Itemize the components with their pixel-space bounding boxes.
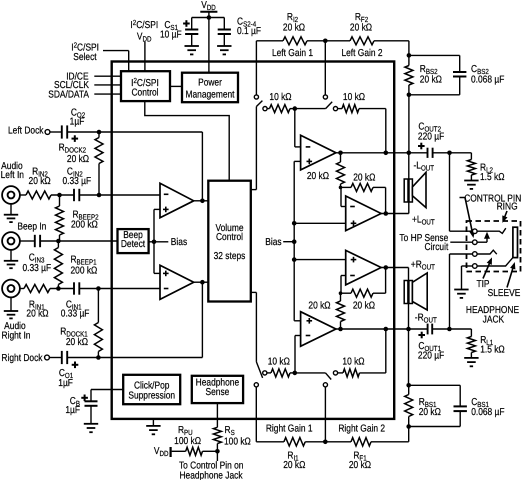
svg-text:20 kΩ: 20 kΩ (67, 154, 90, 165)
svg-text:JACK: JACK (483, 315, 505, 326)
svg-text:SLEEVE: SLEEVE (488, 288, 521, 299)
svg-text:20 kΩ: 20 kΩ (420, 75, 443, 86)
svg-text:Left Gain 2: Left Gain 2 (341, 48, 382, 59)
svg-text:10 kΩ: 10 kΩ (269, 92, 292, 103)
svg-text:20 kΩ: 20 kΩ (283, 23, 306, 34)
svg-text:1µF: 1µF (65, 405, 80, 416)
svg-text:20 kΩ: 20 kΩ (308, 301, 331, 312)
svg-text:0.1 µF: 0.1 µF (237, 26, 261, 37)
svg-text:Control: Control (131, 88, 158, 99)
svg-text:100 kΩ: 100 kΩ (174, 436, 201, 447)
svg-text:20 kΩ: 20 kΩ (349, 460, 372, 471)
svg-text:Bias: Bias (265, 237, 281, 248)
svg-text:200 kΩ: 200 kΩ (71, 220, 98, 231)
svg-text:0.068 µF: 0.068 µF (471, 75, 504, 86)
svg-text:32 steps: 32 steps (214, 251, 246, 262)
svg-text:I2C/SPI: I2C/SPI (130, 18, 158, 31)
svg-text:Left Dock: Left Dock (8, 126, 44, 137)
svg-text:RS: RS (225, 425, 235, 437)
svg-text:20 kΩ: 20 kΩ (29, 176, 52, 187)
svg-text:+ROUT: +ROUT (411, 259, 435, 271)
svg-text:Power: Power (198, 78, 222, 89)
svg-text:100 kΩ: 100 kΩ (224, 437, 251, 448)
svg-text:20 kΩ: 20 kΩ (66, 337, 89, 348)
svg-text:1.5 kΩ: 1.5 kΩ (480, 172, 505, 183)
svg-text:200 kΩ: 200 kΩ (70, 265, 97, 276)
svg-text:Detect: Detect (121, 239, 145, 250)
svg-text:+LOUT: +LOUT (412, 215, 435, 227)
svg-text:Left In: Left In (1, 170, 24, 181)
svg-text:-ROUT: -ROUT (415, 312, 437, 324)
svg-text:1µF: 1µF (58, 378, 73, 389)
svg-text:220 µF: 220 µF (418, 351, 444, 362)
svg-text:10 µF: 10 µF (160, 29, 182, 40)
svg-text:Right In: Right In (2, 331, 31, 342)
svg-text:0.33 µF: 0.33 µF (22, 263, 51, 274)
svg-text:Right Gain 2: Right Gain 2 (338, 424, 385, 435)
svg-text:Headphone Jack: Headphone Jack (179, 470, 243, 480)
svg-text:Control: Control (216, 232, 243, 243)
svg-text:Suppression: Suppression (128, 390, 175, 401)
svg-text:Left Gain 1: Left Gain 1 (272, 48, 313, 59)
svg-text:20 kΩ: 20 kΩ (353, 300, 376, 311)
svg-text:RDOCK2: RDOCK2 (59, 143, 86, 155)
svg-text:VDD: VDD (201, 0, 216, 12)
svg-text:10 kΩ: 10 kΩ (342, 356, 365, 367)
svg-text:Circuit: Circuit (424, 242, 448, 253)
svg-text:-LOUT: -LOUT (414, 160, 435, 172)
svg-text:220 µF: 220 µF (418, 132, 444, 143)
svg-text:Sense: Sense (205, 387, 229, 398)
svg-text:1.5 kΩ: 1.5 kΩ (480, 345, 505, 356)
svg-text:20 kΩ: 20 kΩ (283, 460, 306, 471)
svg-text:20 kΩ: 20 kΩ (307, 171, 330, 182)
svg-text:Right Gain 1: Right Gain 1 (266, 424, 313, 435)
svg-text:10 kΩ: 10 kΩ (343, 92, 366, 103)
svg-text:20 kΩ: 20 kΩ (353, 172, 376, 183)
svg-text:VDD: VDD (137, 32, 152, 44)
svg-text:10 kΩ: 10 kΩ (268, 356, 291, 367)
svg-text:Management: Management (185, 89, 234, 100)
svg-text:20 kΩ: 20 kΩ (419, 407, 442, 418)
svg-text:20 kΩ: 20 kΩ (350, 23, 373, 34)
svg-text:Beep In: Beep In (17, 222, 46, 233)
svg-text:SDA/DATA: SDA/DATA (48, 89, 89, 100)
svg-text:0.068 µF: 0.068 µF (471, 407, 504, 418)
svg-text:1µF: 1µF (70, 116, 85, 127)
svg-text:0.33 µF: 0.33 µF (61, 308, 90, 319)
svg-text:20 kΩ: 20 kΩ (26, 308, 49, 319)
svg-text:VDD: VDD (154, 446, 169, 458)
svg-text:0.33 µF: 0.33 µF (62, 176, 91, 187)
svg-text:Bias: Bias (171, 237, 187, 248)
svg-text:Right Dock: Right Dock (1, 353, 43, 364)
svg-text:RING: RING (497, 202, 518, 213)
svg-text:Select: Select (73, 52, 97, 63)
